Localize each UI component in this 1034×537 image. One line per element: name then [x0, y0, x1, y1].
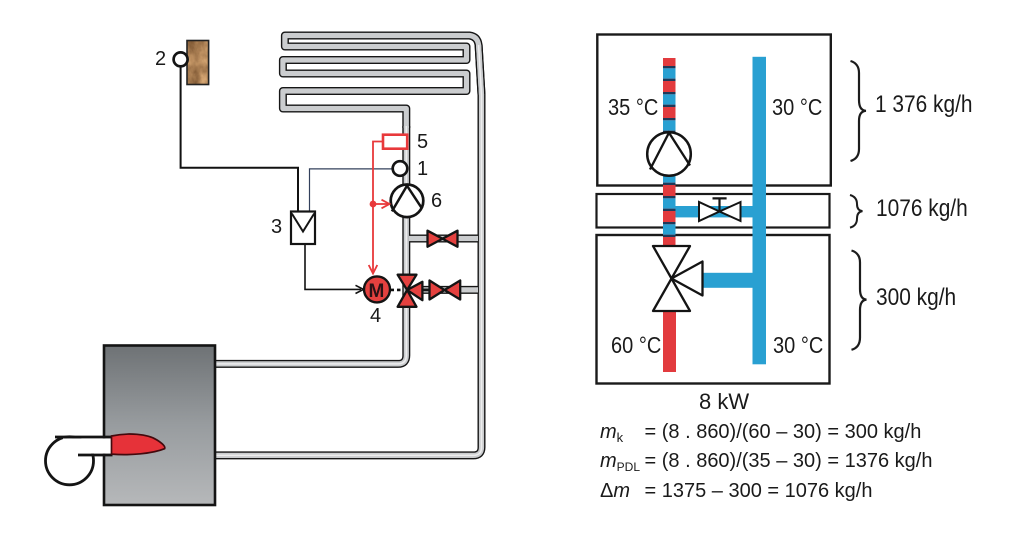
blue tee in middle box	[669, 206, 753, 217]
equation m_PDL	[600, 451, 640, 473]
brace top	[851, 61, 867, 161]
label 2 (room sensor)	[155, 49, 166, 69]
red arrow to pump	[373, 203, 388, 205]
shutoff valve bypass (red bowtie)	[428, 231, 458, 247]
value label 8 kW	[699, 391, 749, 413]
red junction dot	[370, 201, 377, 208]
floor heating serpentine coil	[283, 36, 482, 129]
pump in top box	[647, 132, 691, 176]
value label flow 1 376 kg/h	[875, 93, 973, 117]
burner blower circle	[46, 437, 94, 485]
pipes: light center line	[214, 45, 482, 455]
controller 5 red box	[383, 135, 407, 149]
value label flow 300 kg/h	[876, 286, 956, 310]
value label 35 C supply temp	[608, 96, 658, 119]
label 5 (controller)	[417, 132, 428, 152]
value label 60 C boiler temp	[611, 334, 661, 357]
pipes: black outline layer	[214, 36, 482, 456]
label 3 (outdoor sensor)	[271, 217, 282, 237]
actuator M circle	[364, 276, 390, 302]
blue return pipe vertical	[753, 57, 767, 365]
wire from box 3 down to actuator M with arrowhead	[305, 244, 361, 289]
value label 30 C return temp bottom	[773, 334, 823, 357]
three-way mixing valve (red)	[398, 275, 423, 307]
supply main vertical pipe down to boiler	[214, 126, 406, 364]
shutoff valve lower (red bowtie)	[430, 281, 461, 300]
label 1 (flow sensor)	[417, 159, 428, 179]
blue pipe from mix valve to return	[701, 273, 760, 288]
burner duct	[63, 438, 113, 453]
pipes: gray core layer	[214, 36, 482, 456]
brace bottom	[852, 251, 867, 350]
boiler body	[104, 346, 215, 506]
label 4 (actuator)	[370, 306, 381, 326]
striped supply pipe	[663, 58, 676, 246]
sensor 1 circle	[393, 161, 408, 176]
wood fuel sample image	[187, 41, 209, 85]
box middle	[597, 194, 830, 228]
dashed link M to valve	[391, 289, 404, 292]
wire from box 3 to flow sensor 1 (thin navy)	[310, 169, 394, 212]
mix valve row pipe	[423, 286, 478, 294]
box top (floor circuit)	[597, 35, 831, 186]
bypass pipe	[409, 235, 478, 243]
burner flame	[112, 434, 165, 455]
balancing valve in middle box	[699, 202, 741, 221]
value label flow 1076 kg/h	[876, 197, 968, 221]
pump 6	[391, 185, 424, 218]
box bottom (boiler circuit)	[597, 235, 830, 384]
outdoor sensor box 3	[291, 212, 315, 245]
equation delta m	[600, 481, 630, 501]
link bar valve to shutoff	[422, 288, 429, 291]
letter M on actuator	[369, 282, 385, 301]
wire from sensor 2 to outdoor-sensor box 3	[181, 66, 298, 212]
return pipe right side down to boiler	[214, 45, 482, 455]
brace middle	[850, 195, 863, 228]
red control wire from controller 5 down to actuator	[373, 142, 383, 272]
equation m_k	[600, 422, 623, 444]
label 6 (pump)	[431, 191, 442, 211]
value label 30 C return temp top	[772, 96, 822, 119]
sensor 2 circle	[174, 52, 188, 66]
red pipe below mixing valve	[663, 310, 676, 372]
three-way mixing valve in bottom box	[653, 246, 703, 311]
